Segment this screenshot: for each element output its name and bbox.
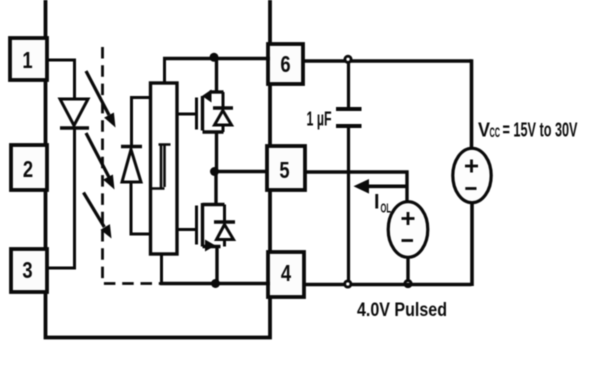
wire pin6 to vcc supply — [303, 59, 472, 63]
wire vcc source to ground rail — [304, 203, 472, 287]
vcc supply source V1 — [453, 148, 491, 202]
svg-text:= 15V to 30V: = 15V to 30V — [503, 120, 578, 142]
light arrow 2 — [86, 133, 115, 190]
wire pulsed source to ground rail — [406, 257, 409, 284]
wire amp top to vcc rail — [163, 59, 166, 84]
photodiode D2 — [121, 147, 142, 183]
svg-text:I: I — [374, 191, 380, 214]
wire capacitor to ground rail — [347, 126, 350, 285]
ground bottom rail — [160, 282, 270, 286]
junction output node — [210, 167, 219, 176]
wire pin5 to pulsed source — [305, 170, 407, 201]
body diode of Q2 — [214, 205, 235, 247]
pin 3 box — [11, 249, 47, 292]
amplifier block U1A — [151, 83, 178, 254]
n-mosfet Q2 — [197, 203, 225, 252]
IOL current arrow — [354, 179, 408, 194]
svg-text:2: 2 — [23, 157, 33, 182]
LED D1 — [60, 99, 89, 128]
body diode of Q1 — [213, 92, 233, 132]
label 4.0V Pulsed — [357, 299, 447, 321]
svg-text:1: 1 — [22, 48, 32, 73]
vcc top rail — [163, 57, 270, 60]
pulsed voltage source V2 — [388, 202, 428, 258]
label VCC = 15V to 30V — [478, 120, 578, 142]
wire Q2 source to ground rail — [215, 247, 218, 284]
pin 1 box — [10, 38, 47, 80]
schmitt trigger symbol — [151, 145, 171, 189]
junction capacitor bottom — [345, 281, 351, 287]
svg-text:4: 4 — [281, 261, 292, 286]
wire photodiode cathode to amp — [132, 98, 151, 147]
svg-text:6: 6 — [280, 52, 290, 77]
wire amp to pmos gate — [177, 113, 196, 116]
wire Q1 drain to output node — [215, 132, 218, 172]
p-mosfet Q1 — [197, 59, 224, 133]
wire amp to nmos gate — [177, 228, 196, 231]
junction capacitor top — [345, 56, 351, 62]
pin 6 box — [268, 44, 303, 84]
wire pin1 to LED anode — [47, 60, 75, 99]
svg-text:3: 3 — [22, 258, 32, 283]
label 1 uF — [307, 109, 332, 131]
svg-text:OL: OL — [381, 201, 392, 216]
wire to capacitor — [347, 61, 350, 109]
pin 5 box — [267, 146, 305, 190]
wire vcc branch down — [470, 59, 474, 148]
wire amp bottom to ground rail — [160, 254, 163, 284]
capacitor C1 — [336, 109, 362, 126]
wire LED cathode to pin3 — [47, 128, 75, 268]
wire photodiode anode to amp — [131, 182, 150, 234]
junction ground rail — [211, 279, 220, 288]
svg-text:4.0V Pulsed: 4.0V Pulsed — [357, 299, 447, 321]
svg-text:1 µF: 1 µF — [307, 109, 332, 131]
light arrow 3 — [84, 193, 112, 239]
svg-text:CC: CC — [490, 124, 501, 140]
shield dashed line — [103, 47, 162, 284]
junction pulsed source bottom — [405, 281, 411, 287]
svg-text:5: 5 — [279, 158, 289, 183]
output mid rail to pin 5 — [216, 170, 267, 173]
pin 4 box — [268, 252, 304, 297]
light arrow 1 — [86, 71, 116, 128]
IC body outline U1 — [46, 0, 271, 338]
junction top rail — [210, 53, 219, 62]
label IOL — [374, 191, 391, 216]
pin 2 box — [11, 145, 47, 190]
wire output node to Q2 drain — [214, 172, 217, 205]
